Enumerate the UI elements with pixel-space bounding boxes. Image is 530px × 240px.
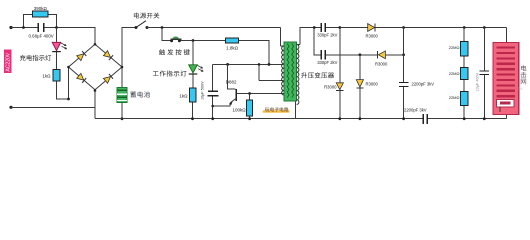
primary/feedback winding (left, tapped) bbox=[282, 46, 284, 95]
node 1.8k corner junction bbox=[268, 63, 271, 66]
capacitor 10μF 500V bbox=[212, 64, 214, 118]
capacitor 330pF 2kV row2 bbox=[321, 50, 323, 59]
svg-text:R3000: R3000 bbox=[324, 85, 337, 90]
node emitter joins cap lead bbox=[211, 105, 214, 108]
node 100k bottom on bus bbox=[248, 117, 251, 120]
resistor 1.8kΩ bbox=[225, 38, 238, 43]
bridge diode top-right bbox=[103, 51, 113, 61]
svg-text:390kΩ: 390kΩ bbox=[34, 6, 48, 11]
wire: charge LED branch bbox=[57, 28, 69, 100]
node base drop junction bbox=[226, 63, 229, 66]
capacitor 0.68μF 400V bbox=[37, 23, 39, 32]
svg-text:2200pF 3kV: 2200pF 3kV bbox=[404, 108, 427, 113]
wire: AC bottom line bbox=[11, 106, 95, 108]
resistor 1kΩ charge branch bbox=[53, 70, 60, 82]
secondary winding (right) bbox=[297, 45, 299, 105]
resistor 390kΩ bbox=[33, 11, 49, 17]
vertical diode R3000 D3 bbox=[339, 28, 341, 119]
wire: 390k bypass loop bbox=[24, 14, 57, 27]
row2 junction nodes bbox=[359, 53, 362, 56]
wire: winding tap interconnect bbox=[259, 64, 284, 80]
power switch 电源开关 bbox=[136, 21, 146, 28]
node junction left of loop bbox=[22, 26, 25, 29]
shock net 电击网 bbox=[493, 43, 519, 115]
LED charge indicator (pink) bbox=[52, 42, 66, 52]
node battery bottom on bus bbox=[121, 117, 124, 120]
vertical diode R3000 D4 bbox=[359, 55, 361, 119]
resistor 1kΩ work branch bbox=[189, 88, 195, 102]
node junction LED branch bottom bbox=[67, 98, 70, 101]
wire: secondary top lead to row1 bbox=[297, 28, 321, 45]
wire: 1.8k output to base line bbox=[239, 41, 270, 65]
label 工作指示灯 bbox=[153, 71, 187, 77]
diode R3000 row2 (points left) bbox=[377, 51, 378, 59]
transformer 升压变压器 bbox=[284, 42, 297, 101]
wire row2 bbox=[326, 54, 404, 56]
svg-text:22MΩ: 22MΩ bbox=[449, 71, 460, 76]
node cap bottom on bus bbox=[211, 117, 214, 120]
AC 220V source label bbox=[4, 50, 12, 74]
svg-text:10μF 400V: 10μF 400V bbox=[476, 72, 480, 91]
capacitor 2200pF 3kV in bottom bus (gray label) bbox=[423, 114, 424, 124]
wire: work LED branch bbox=[192, 41, 195, 119]
svg-text:10μF 500V: 10μF 500V bbox=[201, 81, 205, 100]
svg-text:22MΩ: 22MΩ bbox=[449, 95, 460, 100]
bridge corner nodes bbox=[67, 43, 123, 92]
wire row1 bbox=[326, 28, 506, 44]
node junction right of loop / LED branch bbox=[55, 26, 58, 29]
svg-text:R3000: R3000 bbox=[366, 81, 379, 86]
node work LED branch junction bbox=[192, 39, 195, 42]
svg-text:330pF 2kV: 330pF 2kV bbox=[317, 32, 337, 37]
node work branch on bus bbox=[191, 117, 194, 120]
svg-text:0.68μF 400V: 0.68μF 400V bbox=[29, 33, 54, 38]
trigger button 触发按键 bbox=[170, 39, 173, 42]
svg-text:AC220V: AC220V bbox=[6, 52, 12, 71]
resistor chain 22MΩ x3 bbox=[463, 28, 465, 119]
wire: base line horizontal bbox=[213, 63, 284, 65]
row1 junction nodes bbox=[338, 26, 485, 29]
diode R3000 row1 (points right) bbox=[368, 24, 375, 32]
svg-text:36: 36 bbox=[518, 86, 523, 91]
wire: bridge bottom lead to bus bbox=[94, 90, 96, 119]
wire: down to trigger button row bbox=[162, 28, 225, 41]
wire: top bus switch to transformer bbox=[147, 28, 284, 47]
wire: row1 drop to row2 bbox=[314, 28, 320, 55]
battery 蓄电池 bbox=[121, 103, 123, 119]
capacitor 330pF 2kV row1 bbox=[321, 23, 323, 32]
node collector junction bbox=[248, 92, 251, 95]
node trigger branch junction bbox=[161, 26, 164, 29]
svg-text:1.8kΩ: 1.8kΩ bbox=[226, 46, 239, 51]
svg-text:22MΩ: 22MΩ bbox=[449, 45, 460, 50]
bridge rectifier: diamond wires bbox=[69, 44, 123, 89]
bridge diode bottom-left bbox=[77, 73, 87, 83]
svg-text:D882: D882 bbox=[226, 80, 237, 85]
resistor 100kΩ bbox=[249, 94, 251, 119]
bridge diode bottom-right bbox=[103, 74, 113, 84]
svg-text:1kΩ: 1kΩ bbox=[42, 74, 51, 79]
watermark 玩电子电路 bbox=[263, 110, 290, 112]
label 电击网 vertical bbox=[521, 65, 526, 71]
svg-text:R3000: R3000 bbox=[375, 61, 388, 66]
small capacitor on right riser bbox=[483, 28, 485, 119]
bridge diode top-left bbox=[77, 51, 87, 61]
wire: bridge right corner up to top bus bbox=[122, 28, 136, 88]
svg-text:100kΩ: 100kΩ bbox=[232, 108, 246, 113]
LED work indicator (green) bbox=[189, 65, 204, 75]
svg-text:2200pF 3kV: 2200pF 3kV bbox=[412, 82, 435, 87]
svg-text:R3000: R3000 bbox=[366, 33, 379, 38]
svg-text:330pF 2kV: 330pF 2kV bbox=[317, 60, 337, 65]
wire: secondary bottom to bus bbox=[295, 102, 297, 119]
label 充电指示灯 bbox=[20, 55, 51, 61]
node: AC bottom terminal bbox=[9, 106, 12, 109]
node: AC top terminal bbox=[9, 26, 12, 29]
svg-text:1kΩ: 1kΩ bbox=[179, 94, 188, 99]
wire: AC top line bbox=[11, 27, 96, 29]
bottom bus wire bbox=[95, 112, 506, 119]
capacitor 2200pF 3kV vertical bbox=[403, 28, 405, 119]
wire: bridge top lead bbox=[94, 28, 96, 45]
transistor D882 bbox=[228, 64, 236, 89]
